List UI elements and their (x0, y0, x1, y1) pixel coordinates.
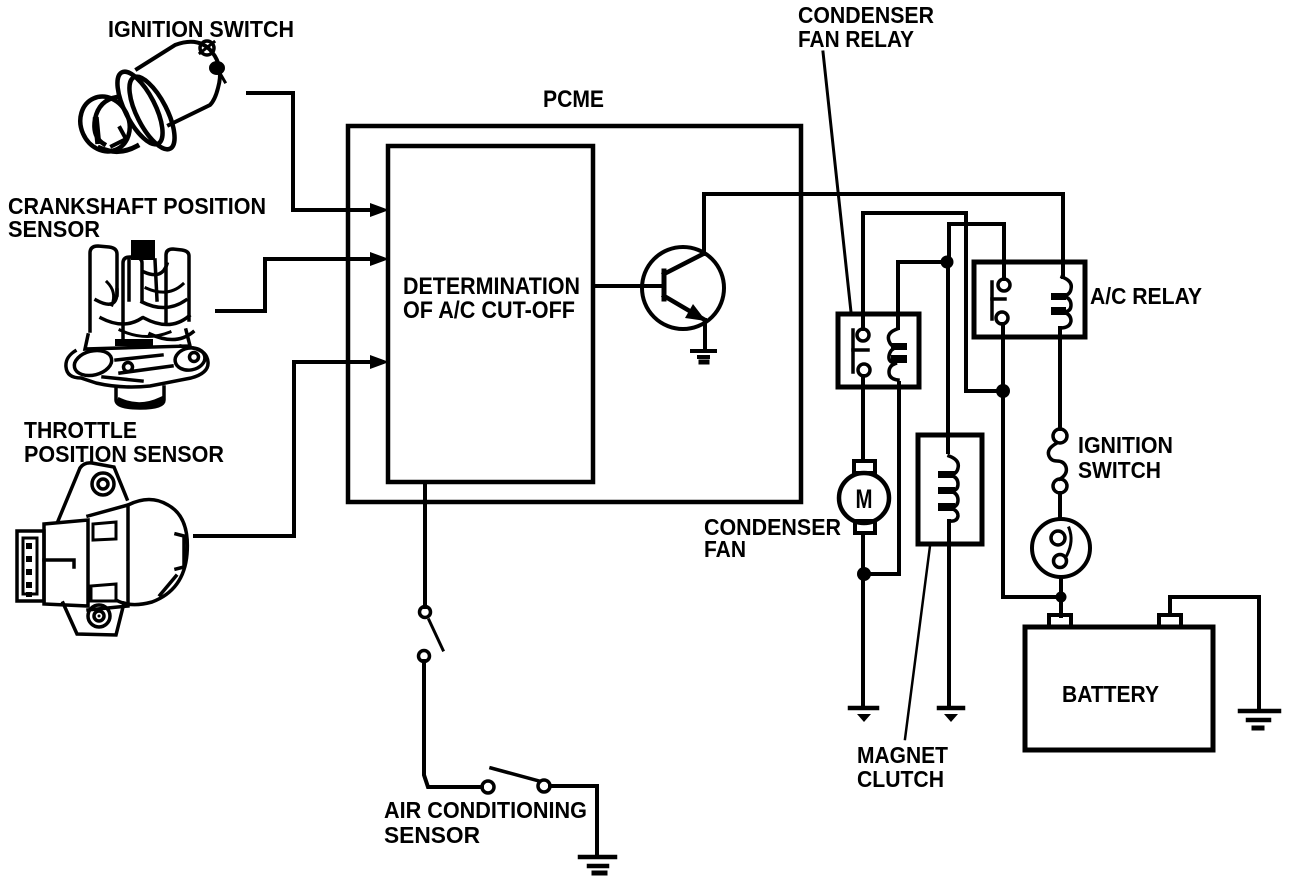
svg-text:A/C RELAY: A/C RELAY (1090, 283, 1202, 309)
svg-text:AIR CONDITIONING: AIR CONDITIONING (384, 797, 587, 823)
wire A/C relay lower contact down to battery node (1003, 324, 1061, 597)
label IGNITION SWITCH (top left) (108, 16, 294, 42)
wire condenser fan relay to motor (861, 376, 865, 461)
node junction (1061,597) (1056, 592, 1067, 603)
wire to ground (550, 786, 597, 854)
svg-text:M: M (856, 484, 873, 514)
wire PCME determination box down to A/C sensor (423, 482, 427, 607)
ground (condenser fan) (850, 708, 877, 722)
label THROTTLE POSITION SENSOR (24, 417, 224, 467)
switch (thermal) upper (419, 607, 444, 662)
arrowhead into PCME pin3 (370, 355, 389, 369)
condenser fan relay box (838, 314, 919, 387)
wire A/C relay coil down to ignition switch (1058, 328, 1062, 429)
wire ignition switch to battery node (1059, 577, 1063, 616)
ground (battery) (1240, 711, 1279, 728)
svg-text:IGNITION SWITCH: IGNITION SWITCH (108, 16, 294, 42)
wire down from switch (424, 661, 482, 787)
wire collector up and right to A/C relay coil (704, 194, 1063, 277)
wire ignition switch to PCME (248, 93, 382, 210)
label IGNITION SWITCH (right) (1078, 432, 1173, 483)
switch (pressure) lower (482, 768, 550, 793)
leader line magnet clutch (905, 546, 930, 739)
label DETERMINATION OF A/C CUT-OFF (403, 273, 580, 324)
wire junction to relay coil return (864, 383, 899, 574)
label AIR CONDITIONING SENSOR (384, 797, 587, 848)
transistor Q1 (642, 247, 724, 329)
wire throttle sensor to PCME (195, 362, 382, 536)
arrowhead into PCME pin2 (370, 252, 389, 266)
leader line condenser fan relay (823, 52, 851, 312)
wire emitter down (703, 320, 707, 349)
svg-text:PCME: PCME (543, 86, 604, 113)
svg-text:OF A/C CUT-OFF: OF A/C CUT-OFF (403, 297, 575, 324)
A/C relay internals (992, 277, 1071, 328)
label MAGNET CLUTCH (857, 742, 948, 792)
wire magnet clutch to ground (947, 521, 951, 706)
label CONDENSER FAN RELAY (798, 2, 934, 52)
ignition switch symbol (1032, 429, 1090, 577)
svg-text:CLUTCH: CLUTCH (857, 766, 944, 792)
throttle position sensor illustration (17, 463, 187, 635)
svg-text:SENSOR: SENSOR (384, 822, 480, 848)
magnet clutch box (918, 435, 982, 544)
svg-text:BATTERY: BATTERY (1062, 681, 1159, 707)
node junction (947,262) (941, 256, 954, 269)
ignition switch lock illustration (72, 41, 225, 159)
label PCME (543, 86, 604, 113)
svg-text:SENSOR: SENSOR (8, 216, 100, 242)
svg-text:POSITION SENSOR: POSITION SENSOR (24, 441, 224, 467)
svg-text:MAGNET: MAGNET (857, 742, 948, 768)
wire battery negative to ground (1170, 597, 1259, 708)
label A/C RELAY (1090, 283, 1202, 309)
node junction (1003,391) (996, 384, 1010, 398)
crankshaft position sensor (distributor) illustration (66, 240, 208, 408)
wire motor to ground with junction (861, 533, 865, 706)
wire node (947,262) down to magnet clutch (946, 262, 950, 452)
label CONDENSER FAN (704, 514, 841, 562)
svg-text:THROTTLE: THROTTLE (24, 417, 137, 443)
magnet clutch coil (938, 456, 958, 521)
wire crankshaft sensor to PCME (217, 259, 382, 311)
svg-text:FAN RELAY: FAN RELAY (798, 26, 914, 52)
wire condenser fan relay contact to node (966,213) and down to node (1003,391) (863, 213, 1003, 391)
condenser fan motor M (854, 461, 875, 473)
wire condenser fan relay coil feed (898, 262, 947, 328)
ground (A/C sensor) (580, 857, 615, 873)
determination inner box (388, 146, 593, 482)
condenser fan relay internals (853, 329, 907, 380)
svg-text:CONDENSER: CONDENSER (798, 2, 934, 28)
ground (magnet clutch) (939, 708, 963, 722)
ground (transistor emitter) (692, 351, 715, 362)
label CRANKSHAFT POSITION SENSOR (8, 193, 266, 242)
wire base from inner box to transistor (594, 284, 662, 288)
A/C relay box (974, 262, 1085, 337)
wire A/C relay upper contact over to magnet clutch feed (949, 224, 1004, 279)
arrowhead into PCME pin1 (370, 203, 389, 217)
battery B1 (1025, 627, 1213, 750)
svg-text:DETERMINATION: DETERMINATION (403, 273, 580, 300)
svg-text:FAN: FAN (704, 536, 746, 562)
PCME outer box (348, 126, 801, 502)
svg-text:IGNITION: IGNITION (1078, 432, 1173, 458)
svg-text:SWITCH: SWITCH (1078, 457, 1161, 483)
node junction (864,574) (857, 567, 871, 581)
